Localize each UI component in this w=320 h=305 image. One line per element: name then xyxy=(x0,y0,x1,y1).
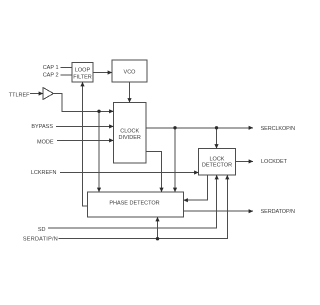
svg-text:CAP 2: CAP 2 xyxy=(43,72,59,78)
wire loop filter to VCO xyxy=(93,72,112,74)
lock detector box xyxy=(199,149,236,176)
wire LCKREFN to lock detector xyxy=(60,172,199,174)
svg-text:LOCKDET: LOCKDET xyxy=(261,159,288,165)
svg-text:LCKREFN: LCKREFN xyxy=(31,170,57,176)
svg-text:DETECTOR: DETECTOR xyxy=(202,163,232,169)
svg-text:PHASE DETECTOR: PHASE DETECTOR xyxy=(109,201,159,207)
label CLOCK DIVIDER xyxy=(119,128,141,141)
svg-text:SERCLKOP/N: SERCLKOP/N xyxy=(261,126,296,132)
VCO box xyxy=(112,60,147,82)
svg-text:LOOP: LOOP xyxy=(75,67,91,73)
buffer amplifier (TTLREF input buffer) xyxy=(43,88,54,100)
svg-text:DIVIDER: DIVIDER xyxy=(119,135,141,141)
svg-text:LOCK: LOCK xyxy=(210,156,225,162)
wire SD to lock detector bottom xyxy=(48,175,217,228)
junction node serclk/lock xyxy=(215,126,218,129)
wire lock detector to LOCKDET output xyxy=(236,160,254,162)
wire MODE to clock divider xyxy=(57,139,114,141)
wire phase detector to loop filter xyxy=(83,82,88,206)
wire recovered clock branch to lock detector top xyxy=(216,128,218,149)
junction node reference/phase xyxy=(97,110,100,113)
wire buffer output to clock divider xyxy=(54,94,114,112)
svg-text:SERDATIP/N: SERDATIP/N xyxy=(23,237,58,243)
wire lock detector bottom to phase detector right xyxy=(184,175,208,200)
wire clock divider to SERCLKOP/N output xyxy=(146,127,253,129)
wire SERDATIP/N to lock detector bottom xyxy=(59,175,228,239)
phase detector box xyxy=(88,192,184,217)
svg-text:FILTER: FILTER xyxy=(73,74,92,80)
junction node serdatip/phase xyxy=(156,237,159,240)
loop filter box U1 xyxy=(72,63,93,83)
label LOCK DETECTOR xyxy=(202,156,232,168)
svg-text:SD: SD xyxy=(38,227,46,233)
wire CAP1 to loop filter xyxy=(61,67,73,69)
svg-text:VCO: VCO xyxy=(124,69,137,75)
wire BYPASS to clock divider xyxy=(56,125,114,127)
wire TTLREF to buffer xyxy=(30,93,43,95)
svg-text:BYPASS: BYPASS xyxy=(31,124,53,130)
svg-text:CAP 1: CAP 1 xyxy=(43,65,59,71)
clock divider box xyxy=(114,103,147,164)
wire CAP2 to loop filter xyxy=(61,74,73,76)
junction node serclk/phase xyxy=(173,126,176,129)
svg-text:MODE: MODE xyxy=(37,139,54,145)
wire SERDATIP/N branch to phase detector bottom xyxy=(157,217,159,239)
svg-text:SERDATOP/N: SERDATOP/N xyxy=(261,209,295,215)
label LOOP FILTER xyxy=(73,67,92,80)
wire VCO to clock divider xyxy=(129,82,131,103)
svg-text:TTLREF: TTLREF xyxy=(9,93,30,99)
wire phase detector to SERDATOP/N output xyxy=(184,210,254,212)
wire reference branch to phase detector top xyxy=(98,111,100,192)
wire clock divider second output to phase detector top xyxy=(146,151,162,192)
svg-text:CLOCK: CLOCK xyxy=(120,128,139,134)
wire recovered clock branch to phase detector top xyxy=(174,128,176,192)
